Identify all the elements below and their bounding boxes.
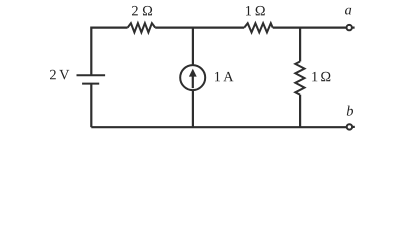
label 2 V: glyph 2	[50, 70, 56, 80]
wire stub right of terminal b	[353, 126, 355, 128]
label 2 V: glyph V	[59, 70, 69, 80]
battery V1 short plate	[82, 83, 99, 85]
label 1 ohm top: glyph 1	[246, 6, 251, 15]
wire stub right of terminal a	[352, 27, 354, 29]
current source I1 arrow	[189, 69, 197, 89]
label node a: glyph a	[345, 8, 351, 15]
label 1 A: glyph 1	[215, 72, 220, 81]
resistor R3 1 ohm vertical (zigzag)	[295, 62, 304, 95]
wire: top rail down to R3	[299, 28, 301, 62]
wire: top rail to current source top	[192, 28, 194, 66]
wire top middle: R1 to R2, junction at current source column	[155, 27, 244, 29]
terminal b circle	[347, 124, 352, 129]
wire top right: R2 past R3 column to terminal a	[273, 27, 347, 29]
wire: current source bottom to bottom rail	[192, 90, 194, 127]
terminal a circle	[347, 25, 352, 30]
label 1 ohm top: glyph omega	[256, 6, 265, 16]
current source I1 circle	[180, 65, 205, 90]
label 1 ohm right: glyph 1	[312, 72, 317, 81]
wire left-top: battery + terminal up and across to R1	[91, 28, 127, 76]
label 1 ohm right: glyph omega	[321, 72, 330, 82]
resistor R1 2 ohm (zigzag)	[128, 23, 156, 32]
wire: battery - terminal down	[90, 84, 92, 128]
resistor R2 1 ohm (zigzag)	[244, 23, 273, 32]
label 2 ohm: glyph omega	[143, 6, 152, 16]
wire: R3 to bottom rail	[299, 95, 301, 128]
label node b: glyph b	[347, 106, 353, 116]
label 1 A: glyph A	[223, 72, 233, 81]
battery V1 long plate	[77, 74, 106, 76]
label 2 ohm: glyph 2	[132, 6, 138, 16]
wire bottom rail to terminal b	[91, 126, 346, 128]
